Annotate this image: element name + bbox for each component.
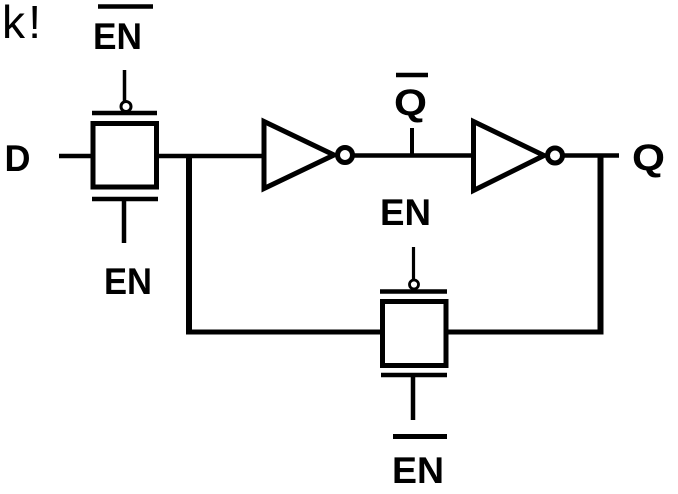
svg-text:EN: EN [93,16,142,57]
svg-text:Q: Q [394,82,427,123]
svg-text:D: D [5,138,31,179]
svg-text:k!: k! [2,0,41,48]
svg-text:EN: EN [392,450,444,491]
svg-text:EN: EN [104,261,152,302]
svg-text:Q: Q [632,137,665,178]
svg-text:EN: EN [380,192,431,233]
